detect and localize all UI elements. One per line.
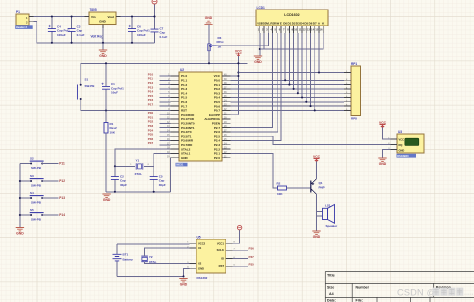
crystal Y1 — [115, 165, 135, 167]
wire RST rail — [81, 110, 179, 112]
wire VCC line to RP1 — [238, 72, 344, 74]
svg-text:X1: X1 — [198, 246, 202, 250]
wire battery- to gnd — [117, 275, 184, 277]
MCU pin stubs right — [222, 76, 231, 158]
sensor U3 DS18B20 — [397, 134, 424, 153]
junction dot 7805 gnd x rail — [102, 42, 104, 44]
svg-text:15: 15 — [315, 28, 319, 32]
svg-text:S1: S1 — [85, 78, 89, 82]
wire S3 to net label — [42, 180, 58, 182]
junction dot R3 bottom — [208, 62, 210, 64]
wire P2.7 to LCD RS — [231, 33, 273, 128]
wire DS18B20 GND — [383, 150, 391, 158]
wire SCLK with net label P36 — [233, 249, 249, 251]
svg-text:DQ: DQ — [399, 143, 403, 147]
svg-text:Number: Number — [356, 285, 370, 289]
power port VCC (top, circle) — [152, 0, 157, 4]
capacitor C7 — [154, 17, 156, 30]
junction dot VCC2 line — [237, 71, 239, 73]
wire S2 to net label — [42, 163, 58, 165]
wire VCC riser — [154, 4, 156, 17]
ground symbol DS18B20 — [378, 158, 386, 161]
svg-text:100uF: 100uF — [57, 33, 66, 37]
svg-text:Date:: Date: — [327, 298, 336, 302]
wire IO with net label P37 — [233, 258, 249, 260]
ground symbol LCD VSS — [254, 56, 262, 59]
svg-text:VCC: VCC — [399, 137, 405, 141]
ground symbol speaker — [312, 231, 320, 234]
junction dot crystal left / C2 — [114, 165, 116, 167]
junction dot VCC riser — [153, 15, 155, 17]
LCD1 LCD1602 header — [256, 10, 328, 26]
svg-text:30pF: 30pF — [120, 183, 127, 187]
svg-text:VCC2: VCC2 — [198, 241, 206, 245]
resistor R2 — [278, 186, 287, 190]
ground symbol crystal rail — [102, 194, 110, 197]
svg-text:Size: Size — [327, 285, 334, 289]
RTC U5 DS1302 — [196, 239, 226, 273]
svg-text:13: 13 — [307, 28, 311, 32]
svg-text:SW-PB: SW-PB — [31, 183, 42, 187]
connector P1 — [16, 14, 29, 26]
wire VCC to Q1 emitter — [316, 162, 318, 179]
wire VCC to DS18B20 — [383, 128, 391, 140]
svg-text:Title: Title — [327, 273, 335, 277]
junction dot VCC pin — [237, 75, 239, 77]
title block — [325, 272, 474, 302]
wire LCD VDD — [263, 33, 265, 49]
RP1 pin stubs — [344, 73, 351, 111]
svg-text:Y1: Y1 — [136, 159, 140, 163]
junction dot DS1302 gnd — [182, 275, 184, 277]
svg-text:LS1: LS1 — [325, 204, 331, 208]
switch S4 SW-PB — [20, 197, 31, 199]
svg-text:File:: File: — [356, 298, 363, 302]
wire X1 to crystal — [145, 248, 190, 256]
svg-text:XTAL: XTAL — [135, 172, 143, 176]
svg-text:P12: P12 — [59, 179, 65, 183]
svg-text:P17: P17 — [148, 103, 154, 107]
svg-text:GND: GND — [399, 148, 405, 152]
wire R1 to ground rail — [105, 133, 107, 192]
wire Q1 collector to speaker/GND — [316, 194, 318, 231]
wire VCC riser to EA pin — [237, 56, 239, 114]
svg-text:DS18B20: DS18B20 — [397, 154, 409, 158]
svg-text:RP8: RP8 — [351, 117, 357, 121]
junction dots C3 — [71, 15, 73, 17]
wire switch common rail — [19, 164, 21, 228]
wire XTAL1 to crystal — [154, 153, 179, 166]
junction dot switch rail — [19, 197, 21, 199]
wire P2.1 to R2 — [231, 153, 278, 188]
svg-text:0.1uF: 0.1uF — [77, 33, 85, 37]
wires P3.0-P3.7 with net labels — [160, 114, 171, 116]
svg-text:U2: U2 — [180, 68, 184, 72]
svg-text:10K: 10K — [110, 130, 116, 134]
wire R2 to Q1 base — [287, 187, 311, 189]
junction dot switch rail — [19, 180, 21, 182]
svg-text:P14: P14 — [59, 213, 65, 217]
junction dots C4 — [51, 15, 53, 17]
svg-text:11: 11 — [299, 28, 302, 32]
DS18B20 pin stubs — [391, 139, 398, 150]
switch S3 SW-PB — [20, 180, 31, 182]
junction dot VCC rail end — [237, 62, 239, 64]
svg-text:P11: P11 — [59, 162, 65, 166]
svg-text:IO: IO — [221, 257, 224, 261]
svg-text:Q1: Q1 — [319, 181, 323, 185]
wires LCD D0-D7 to P0 bus — [284, 33, 286, 80]
svg-text:Speaker: Speaker — [326, 224, 339, 228]
svg-text:Battery: Battery — [123, 257, 134, 261]
resistor R1 — [105, 111, 107, 123]
svg-text:CSDN @: CSDN @ — [397, 287, 436, 297]
wire DS1302 GND — [184, 268, 190, 276]
svg-text:Volt Reg: Volt Reg — [91, 35, 104, 39]
svg-text:30pF: 30pF — [159, 183, 166, 187]
MCU pin stubs left — [171, 76, 180, 158]
wire RST with net label P35 — [233, 265, 249, 267]
junction dot switch rail — [19, 214, 21, 216]
svg-text:Vout: Vout — [108, 15, 114, 19]
capacitor C4 — [51, 17, 53, 29]
DS1302 pin stubs — [189, 243, 232, 268]
svg-text:R2: R2 — [277, 182, 281, 186]
svg-text:RST: RST — [219, 264, 225, 268]
svg-text:E: E — [280, 21, 282, 25]
svg-text:VCC1: VCC1 — [217, 241, 225, 245]
svg-text:SW-PB: SW-PB — [31, 217, 42, 221]
svg-text:SW-PB: SW-PB — [31, 200, 42, 204]
svg-text:RP1: RP1 — [351, 62, 357, 66]
crystal Y2 — [141, 256, 148, 262]
svg-text:P1: P1 — [16, 10, 20, 14]
resistor pack RP1 — [351, 66, 361, 116]
svg-text:P2.0: P2.0 — [214, 156, 221, 160]
svg-text:16: 16 — [319, 28, 323, 32]
wire X2 to crystal — [145, 262, 190, 264]
wire LCD K to VSS gnd — [260, 33, 323, 49]
label DS18B20 (selected) — [397, 154, 417, 158]
svg-text:100uF: 100uF — [137, 33, 146, 37]
svg-text:RPot: RPot — [217, 40, 224, 44]
junction dots ground rail — [114, 191, 116, 193]
wire LCD A to VCC line — [318, 33, 320, 73]
svg-text:X2: X2 — [198, 262, 202, 266]
junction dot VSS/K — [259, 48, 261, 50]
svg-text:GND: GND — [99, 20, 107, 24]
wire XTAL2 to crystal — [115, 149, 179, 166]
capacitor C2 — [114, 166, 116, 176]
svg-text:S5: S5 — [30, 208, 34, 212]
wire 7805 GND pin to ground — [102, 28, 104, 50]
svg-text:Vin: Vin — [91, 15, 96, 19]
svg-text:S3: S3 — [30, 174, 34, 178]
wire P2.5 to DS18B20 DQ (with jog) — [231, 136, 391, 144]
ground symbol below 7805 — [99, 50, 107, 53]
wires P1.0-P1.7 with net labels — [160, 75, 171, 77]
svg-text:LCD1602: LCD1602 — [284, 13, 299, 17]
svg-text:P36: P36 — [249, 247, 255, 251]
svg-text:BT1: BT1 — [123, 253, 129, 257]
power port VCC (DS1302, circle) — [237, 225, 241, 229]
svg-text:S2: S2 — [30, 156, 34, 160]
svg-text:GND: GND — [180, 282, 188, 286]
ground symbol switches — [16, 228, 24, 231]
svg-text:P37: P37 — [148, 141, 154, 145]
svg-text:Header 2: Header 2 — [16, 25, 28, 29]
potentiometer R3 — [208, 25, 210, 64]
wire speaker stubs — [317, 211, 323, 213]
svg-text:P13: P13 — [59, 196, 65, 200]
label AT89C51 (selected) — [176, 163, 188, 167]
svg-text:GND: GND — [205, 16, 213, 20]
svg-text:U3: U3 — [398, 130, 402, 134]
svg-text:SW-PB: SW-PB — [85, 84, 96, 88]
wire P1 pin2 to ground rail — [34, 21, 52, 43]
svg-text:P35: P35 — [249, 263, 255, 267]
wire P2.6 to LCD RW — [231, 33, 278, 132]
transistor Q1 PNP — [310, 181, 312, 193]
svg-text:P37: P37 — [249, 255, 255, 259]
svg-text:GND: GND — [254, 60, 262, 64]
svg-text:GND: GND — [16, 232, 24, 236]
svg-text:GND: GND — [181, 156, 189, 160]
svg-text:SCLK: SCLK — [217, 248, 224, 252]
MCU U2 AT89C51 — [179, 72, 222, 161]
svg-text:PNP: PNP — [319, 186, 325, 190]
svg-text:Y2: Y2 — [149, 255, 153, 259]
svg-text:......: ...... — [464, 290, 474, 297]
junction dot C1 top — [105, 62, 107, 64]
battery BT1 — [116, 244, 118, 254]
wires P0 bus to RP1 — [231, 79, 345, 81]
wire Vout rail — [121, 16, 155, 18]
wire MCU GND pin down — [171, 158, 179, 192]
svg-text:GND: GND — [99, 54, 107, 58]
capacitor C3 — [71, 17, 73, 29]
svg-text:12: 12 — [303, 28, 307, 32]
wire S5 to net label — [42, 214, 58, 216]
ground symbol DS1302 — [179, 279, 187, 282]
wire crystal ground rail — [106, 191, 171, 193]
svg-text:10: 10 — [294, 28, 298, 32]
label Header2 (selected) — [15, 25, 33, 29]
capacitor C6 — [131, 17, 133, 29]
switch S2 SW-PB — [20, 163, 31, 165]
svg-text:89C51: 89C51 — [176, 164, 184, 167]
svg-text:LCD1: LCD1 — [257, 6, 266, 10]
svg-text:GND: GND — [379, 162, 387, 166]
wire S4 to net label — [42, 197, 58, 199]
wire LCD VSS to GND — [259, 33, 261, 56]
svg-text:U5: U5 — [197, 235, 201, 239]
wire R3 wiper to LCD VL — [217, 33, 269, 46]
svg-text:10K: 10K — [277, 192, 283, 196]
junction dot A — [318, 71, 320, 73]
wire +V top rail — [34, 16, 90, 18]
capacitor C1 — [105, 63, 107, 86]
switch S5 SW-PB — [20, 214, 31, 216]
svg-text:0.1uF: 0.1uF — [160, 35, 168, 39]
regulator U1 7805 — [89, 12, 116, 25]
wire MCU VCC pin — [231, 75, 239, 77]
svg-text:DS1302: DS1302 — [197, 276, 208, 280]
svg-text:7805: 7805 — [90, 8, 97, 12]
wire ground rail — [37, 42, 155, 44]
junction dot RST node — [105, 110, 107, 112]
svg-text:10uF: 10uF — [111, 91, 118, 95]
wire VCC rail to reset/R3 — [81, 62, 248, 64]
svg-text:GND: GND — [313, 235, 321, 239]
junction dots C6 — [131, 15, 133, 17]
LCD pin stubs — [260, 26, 323, 33]
svg-text:S4: S4 — [30, 191, 34, 195]
svg-text:D7: D7 — [313, 21, 317, 25]
svg-text:SW-PB: SW-PB — [31, 166, 42, 170]
speaker LS1 — [323, 208, 328, 219]
wire VCC1 to power — [233, 230, 240, 244]
switch S1 SW-PB (reset) — [80, 63, 82, 85]
wire P2.4 to LCD E — [231, 33, 282, 141]
capacitor C5 — [153, 166, 155, 176]
svg-text:GND: GND — [103, 198, 111, 202]
svg-text:A4: A4 — [329, 292, 334, 296]
svg-text:GND: GND — [198, 267, 204, 271]
svg-text:14: 14 — [311, 28, 315, 32]
wire battery+ to VCC2 — [117, 243, 189, 245]
